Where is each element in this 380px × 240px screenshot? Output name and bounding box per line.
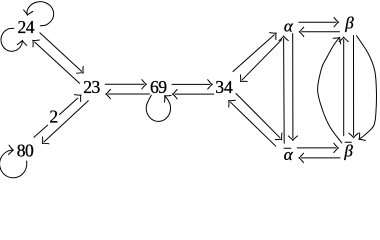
svg-text:34: 34: [215, 77, 233, 97]
self-loop on 24 (top): [27, 2, 54, 26]
arrow 34 to alpha-bar: [236, 94, 280, 138]
self-loop on 80: [0, 150, 27, 178]
self-loop on 24 (left): [1, 28, 22, 51]
svg-text:β: β: [344, 14, 354, 33]
svg-text:α: α: [284, 16, 294, 35]
arrow alpha to 34: [242, 40, 281, 80]
svg-text:69: 69: [150, 77, 167, 97]
arrow beta-bar to beta straight: [343, 40, 345, 136]
arrow alpha to alpha-bar: [292, 34, 294, 139]
arrow 34 to 69: [175, 93, 214, 95]
svg-text:80: 80: [17, 140, 34, 160]
arrow 34 to alpha: [233, 35, 274, 72]
svg-text:β: β: [343, 141, 353, 160]
arrow alpha to beta: [299, 21, 336, 23]
macron of beta-bar: [345, 141, 351, 143]
svg-text:24: 24: [18, 17, 35, 37]
svg-text:23: 23: [83, 77, 100, 97]
arrow beta to alpha: [302, 31, 340, 33]
arrow beta-bar to beta (left arc): [318, 39, 342, 143]
arrow 23 to 80: [44, 101, 88, 142]
arrow 69 to 34: [172, 83, 210, 85]
arrow alpha-bar to 34: [231, 102, 276, 146]
arrow 23 to 69: [105, 83, 144, 85]
svg-text:α: α: [284, 145, 294, 164]
svg-text:2: 2: [49, 106, 58, 126]
arrow beta to beta-bar straight: [353, 36, 355, 136]
arrow alpha-bar to beta-bar: [297, 147, 336, 149]
arrow 23 to 24: [35, 42, 80, 83]
arrow beta to beta-bar (right arc): [357, 36, 377, 139]
arrow 80 to 23 (with label gap): [34, 125, 48, 137]
macron of alpha-bar: [284, 147, 291, 149]
arrow beta-bar to alpha-bar: [301, 157, 340, 159]
arrow alpha-bar to alpha: [283, 39, 286, 144]
arrow 24 to 23: [40, 33, 82, 72]
arrow 69 to 23: [108, 93, 149, 95]
self-loop on 69: [146, 95, 170, 121]
